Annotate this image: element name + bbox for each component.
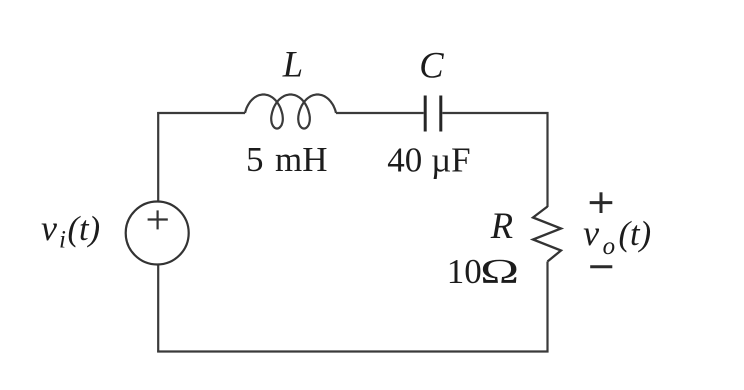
svg-text:o: o bbox=[603, 233, 616, 260]
svg-text:L: L bbox=[282, 44, 303, 85]
wire top-left segment bbox=[157, 112, 245, 114]
svg-text:v: v bbox=[41, 208, 57, 248]
wire capacitor to top-right corner bbox=[442, 112, 548, 114]
svg-text:(t): (t) bbox=[68, 210, 101, 248]
wire bottom bbox=[157, 350, 548, 352]
inductor L bbox=[245, 95, 336, 129]
svg-text:C: C bbox=[419, 45, 444, 86]
label v_o(t) bbox=[583, 213, 651, 260]
voltage source v_i circle bbox=[126, 202, 189, 265]
label v_i(t) bbox=[41, 208, 100, 254]
svg-text:5: 5 bbox=[246, 140, 264, 179]
svg-text:µF: µF bbox=[431, 141, 471, 180]
value 40 microfarad bbox=[387, 141, 470, 180]
wire right side upper bbox=[546, 112, 548, 207]
resistor R zigzag bbox=[533, 207, 561, 262]
wire left side upper bbox=[157, 112, 159, 202]
svg-text:mH: mH bbox=[275, 140, 328, 179]
wire inductor to capacitor bbox=[336, 112, 424, 114]
svg-text:R: R bbox=[490, 205, 513, 246]
node minus bbox=[590, 265, 612, 268]
svg-text:10: 10 bbox=[447, 252, 482, 291]
wire left side lower bbox=[157, 264, 159, 353]
value 5 mH bbox=[246, 140, 328, 179]
svg-text:Ω: Ω bbox=[480, 252, 519, 291]
svg-text:40: 40 bbox=[387, 141, 422, 180]
svg-text:(t): (t) bbox=[619, 215, 652, 253]
svg-text:v: v bbox=[583, 213, 599, 253]
svg-text:i: i bbox=[59, 227, 66, 254]
node plus bbox=[590, 192, 613, 213]
source polarity plus bbox=[148, 210, 168, 229]
capacitor C plates bbox=[425, 96, 441, 132]
wire right side lower bbox=[546, 262, 548, 353]
value 10 ohm bbox=[447, 252, 519, 291]
